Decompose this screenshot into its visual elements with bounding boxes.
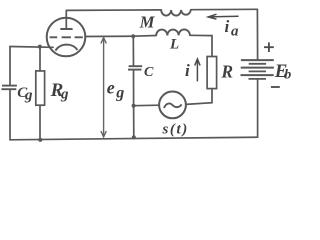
svg-text:g: g	[115, 85, 124, 102]
wire top rail left segment	[66, 9, 161, 12]
junction dot source node	[132, 104, 136, 108]
tube grid dashes	[50, 36, 83, 38]
tube envelope circle	[47, 18, 86, 57]
wire bottom rail	[10, 137, 258, 140]
svg-text:b: b	[284, 68, 291, 83]
battery minus sign	[271, 86, 280, 88]
svg-text:i: i	[185, 61, 190, 80]
source sine wave	[164, 103, 182, 108]
resistor R	[207, 57, 217, 89]
wire left vertical upper	[9, 47, 11, 86]
wire Rg top lead	[39, 47, 41, 71]
wire left vertical lower	[9, 89, 11, 140]
wire source left lead	[134, 104, 160, 107]
svg-text:g: g	[24, 87, 33, 103]
tube plate bar	[60, 28, 72, 30]
wire grid lead right	[85, 35, 133, 37]
wire L row left	[133, 35, 156, 38]
resistor Rg	[36, 71, 45, 105]
junction dot Rg bottom	[38, 138, 42, 142]
svg-text:g: g	[60, 87, 69, 103]
svg-text:s(t): s(t)	[162, 122, 189, 138]
wire C top lead	[132, 36, 134, 66]
arrow i (pointing up)	[195, 59, 200, 81]
capacitor C plates	[128, 66, 142, 69]
junction dot C top node	[131, 34, 135, 38]
battery Eb plates	[241, 60, 274, 79]
wire C node down to rail	[133, 106, 135, 138]
svg-text:i: i	[225, 17, 230, 36]
junction dot Rg top	[38, 45, 42, 49]
wire right vertical lower (from battery -)	[257, 80, 259, 137]
junction dot rail node	[132, 135, 136, 139]
battery plus sign	[264, 42, 274, 52]
wire C bottom lead	[133, 70, 135, 106]
wire top rail right segment	[191, 8, 258, 10]
svg-text:a: a	[231, 24, 239, 40]
wire L row right + corner down to R	[190, 35, 212, 56]
capacitor Cg plates	[1, 86, 17, 90]
wire R bottom to source	[186, 89, 212, 105]
svg-text:M: M	[139, 13, 156, 32]
arrow i_a (pointing left)	[208, 14, 238, 19]
inductor L (tank coil)	[156, 29, 190, 35]
svg-text:R: R	[220, 61, 233, 81]
wire plate lead	[65, 10, 67, 29]
wire top-left horizontal (cathode lead)	[10, 46, 53, 49]
svg-text:C: C	[144, 65, 154, 80]
svg-text:L: L	[169, 37, 179, 53]
triode tube V1	[47, 18, 86, 57]
svg-text:e: e	[107, 78, 115, 98]
tube cathode arc	[55, 45, 77, 51]
inductor primary coil (plate side)	[161, 10, 191, 16]
source s(t) circle	[159, 92, 186, 119]
wire right vertical upper (to battery +)	[256, 9, 258, 60]
wire Rg bottom lead	[39, 105, 41, 140]
arrow e_g (double headed vertical)	[101, 38, 106, 137]
